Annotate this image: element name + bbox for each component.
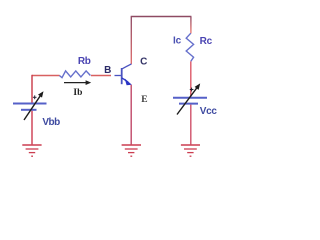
- wire collector vertical: [130, 17, 132, 65]
- svg-text:Ib: Ib: [73, 88, 82, 98]
- svg-text:B: B: [104, 65, 111, 76]
- wire Vbb to ground: [31, 111, 33, 145]
- source Vbb plate long: [13, 103, 47, 105]
- current arrow Ib: [64, 80, 91, 85]
- source Vcc arrow: [177, 83, 200, 114]
- source Vcc plus: [190, 88, 194, 92]
- svg-text:Rc: Rc: [200, 36, 213, 47]
- svg-text:Vcc: Vcc: [200, 106, 218, 117]
- source Vcc plate long: [173, 97, 207, 99]
- svg-text:Ic: Ic: [173, 36, 182, 47]
- svg-text:C: C: [140, 57, 147, 68]
- source Vbb plus: [33, 95, 37, 99]
- wire Vbb vertical: [31, 75, 33, 103]
- wire Rb to base: [91, 75, 111, 77]
- transistor Q1 bar: [121, 68, 123, 84]
- source Vcc plate short: [179, 103, 198, 105]
- wire Rc to Vcc: [190, 61, 192, 97]
- source Vbb arrow: [24, 91, 44, 120]
- wire emitter to ground: [130, 85, 132, 145]
- wire top rail: [131, 16, 192, 18]
- resistor Rb: [59, 71, 90, 78]
- wire right vertical upper: [190, 17, 192, 34]
- transistor Q1 emitter lead: [122, 78, 128, 82]
- resistor Rc: [186, 33, 193, 61]
- transistor Q1 base lead: [115, 75, 121, 77]
- wire Vcc to ground: [190, 105, 192, 145]
- svg-text:Vbb: Vbb: [42, 117, 60, 128]
- transistor Q1 emitter arrowhead: [125, 78, 132, 85]
- ground middle: [122, 145, 141, 156]
- source Vbb plate short: [21, 109, 37, 111]
- wire Vbb top corner + horizontal run: [32, 75, 60, 77]
- svg-text:Rb: Rb: [78, 56, 91, 67]
- ground left: [22, 145, 41, 156]
- ground right: [181, 145, 200, 156]
- svg-text:E: E: [141, 95, 147, 105]
- transistor Q1 collector lead: [122, 64, 131, 69]
